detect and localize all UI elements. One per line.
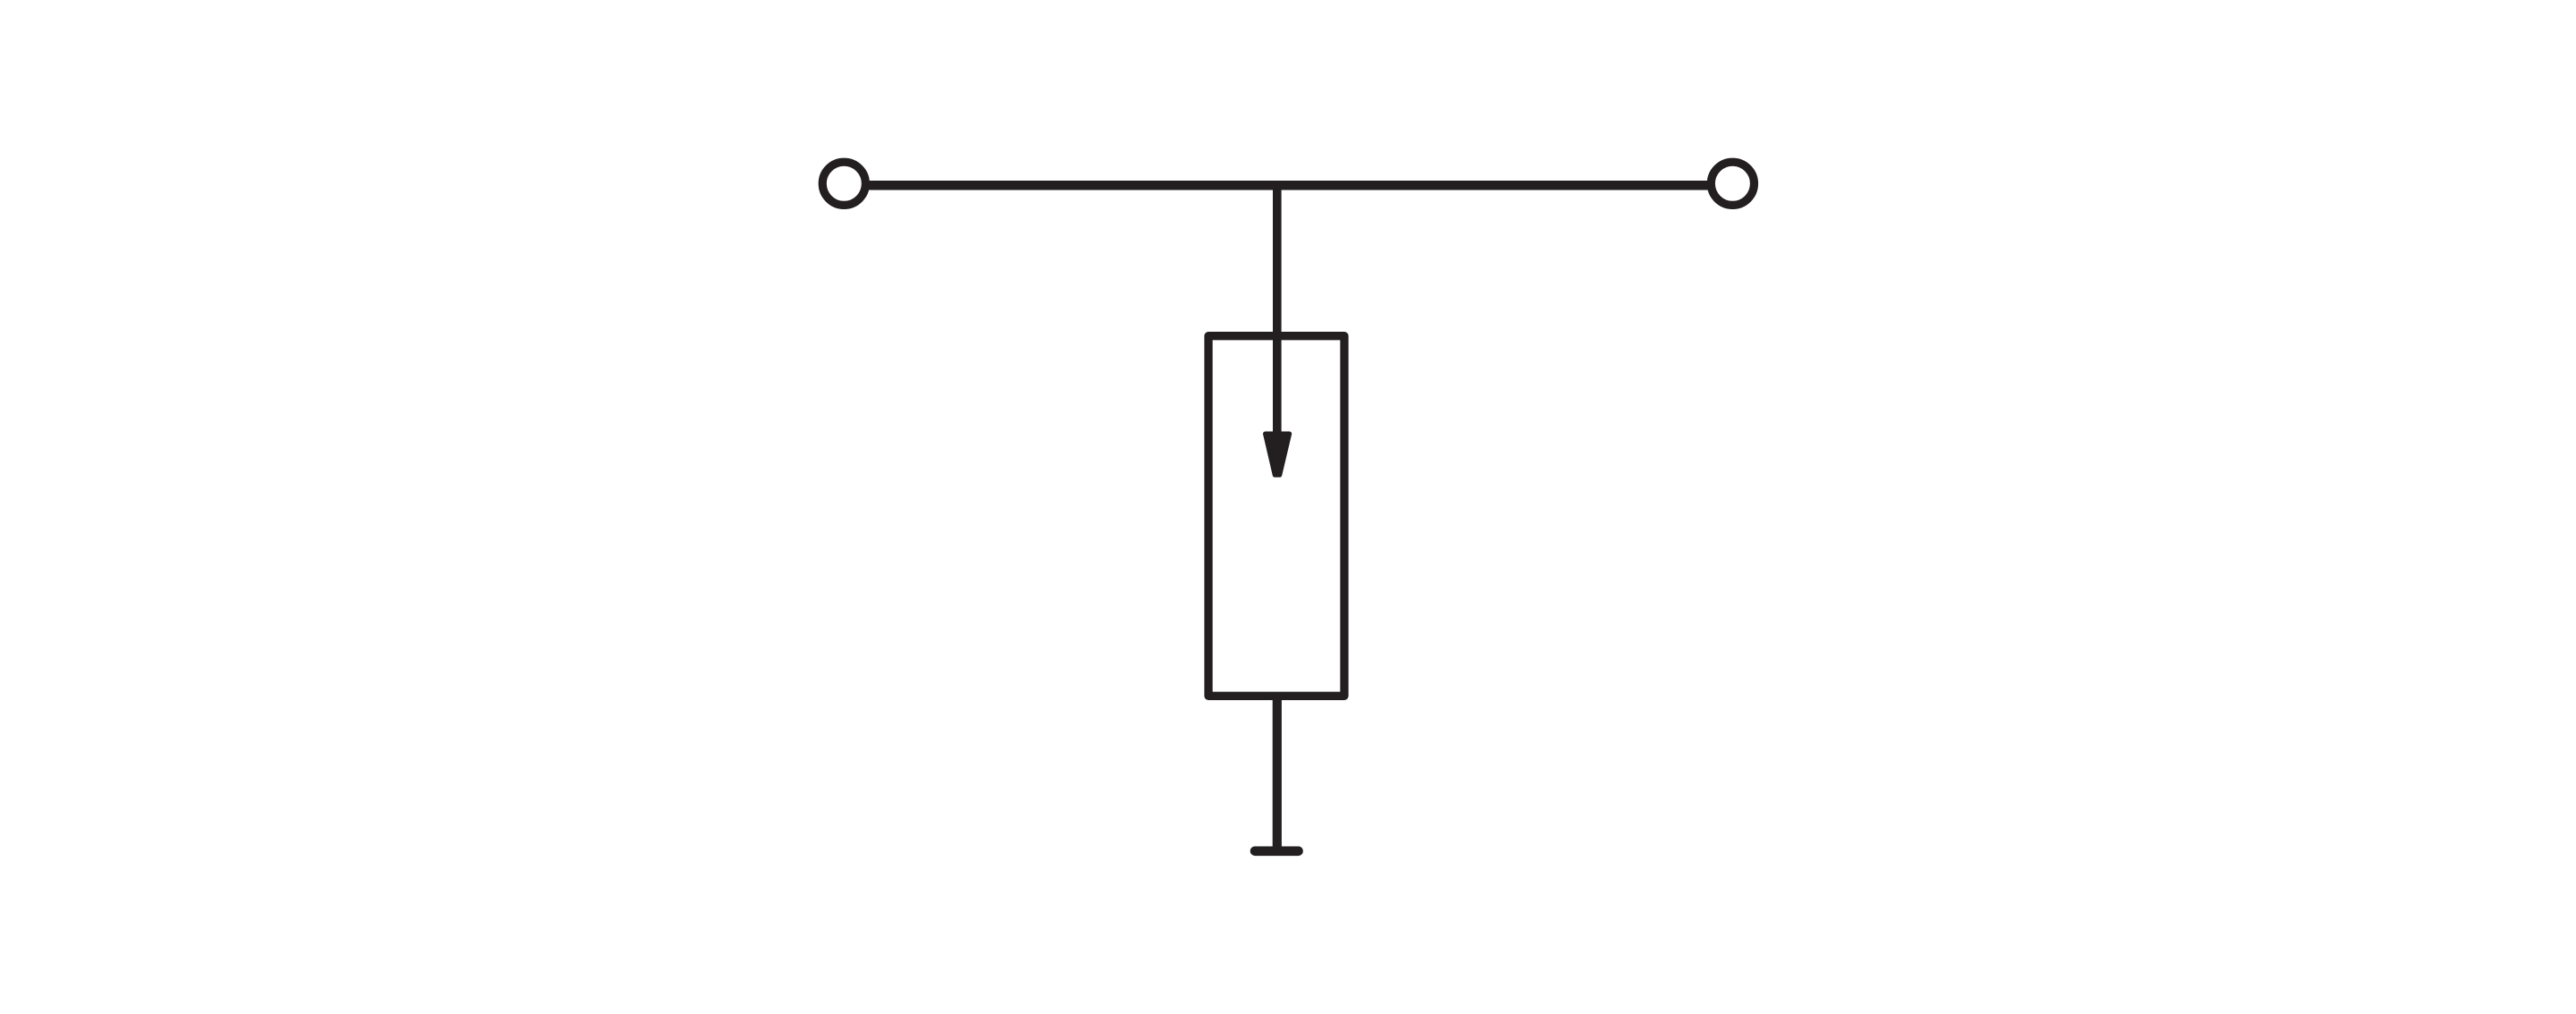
terminal circle right [1711, 162, 1754, 205]
wire: vertical drop into component [1273, 182, 1282, 447]
wire: below component box [1273, 696, 1282, 849]
component box (disconnect/fuse element) [1208, 336, 1344, 697]
wire: horizontal bus [867, 181, 1708, 190]
terminal circle left [822, 162, 865, 205]
bottom contact bar [1255, 846, 1299, 856]
arrowhead of drop wire [1266, 434, 1290, 475]
